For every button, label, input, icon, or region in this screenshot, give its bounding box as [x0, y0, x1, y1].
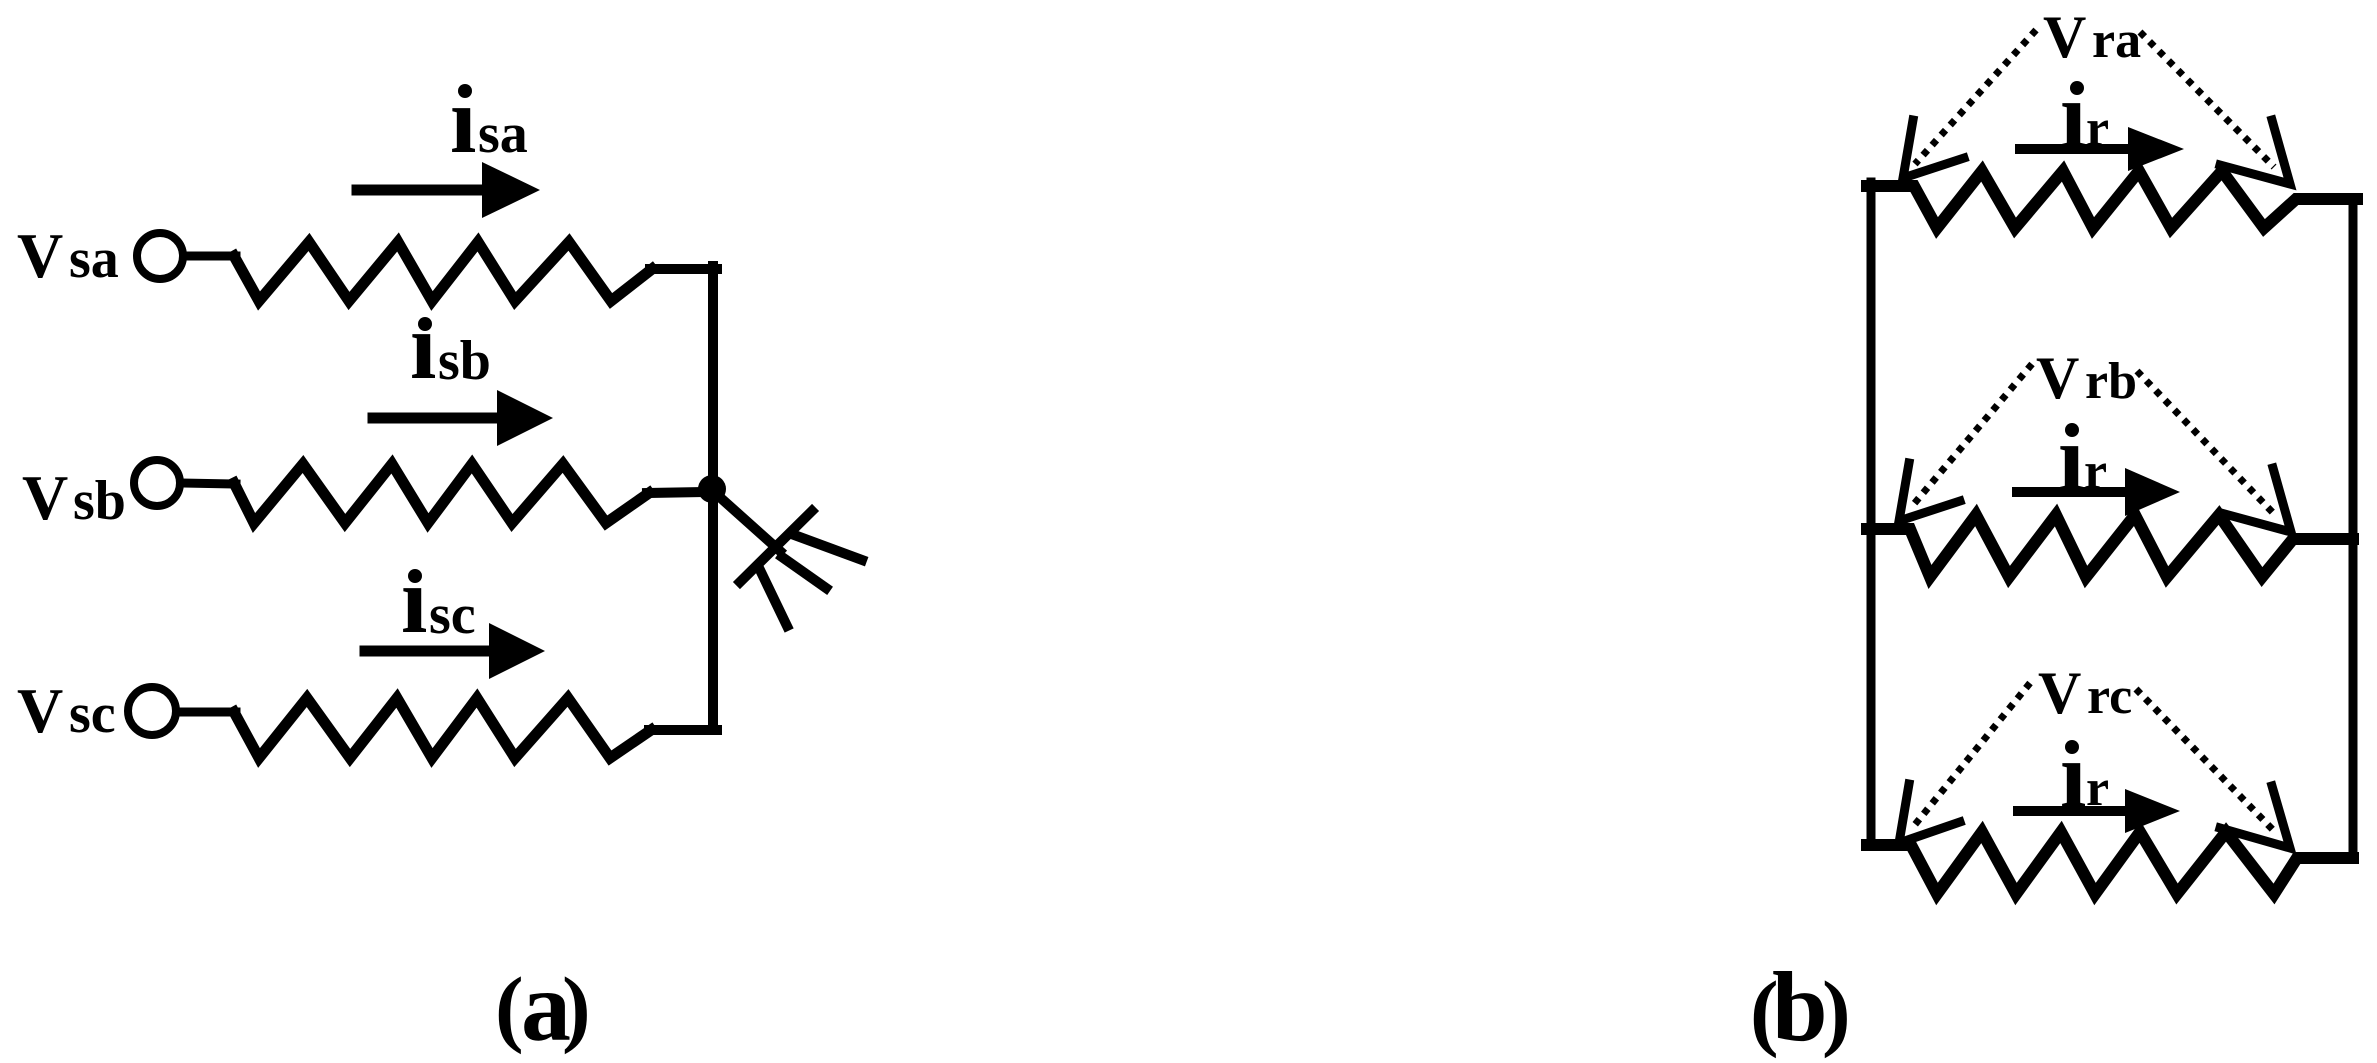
svg-text:sc: sc	[429, 584, 476, 646]
caption (b)	[1750, 951, 1851, 1062]
right rail of rotor loop	[2349, 199, 2358, 858]
resistor Rrc (bottom)	[1867, 832, 2353, 894]
label Vsb	[22, 462, 126, 533]
resistor Rsb	[234, 464, 649, 523]
current arrow isa	[357, 185, 482, 196]
svg-text:V: V	[2038, 660, 2081, 726]
current label isb	[410, 293, 491, 399]
left rail of rotor loop	[1867, 182, 1876, 845]
resistor Rsc	[234, 698, 651, 758]
resistor Rra (top)	[1867, 171, 2357, 228]
label Vrc	[2038, 660, 2132, 726]
svg-text:V: V	[2043, 4, 2086, 70]
fault symbol ray middle	[782, 557, 826, 588]
current arrow ir (bottom)	[2018, 806, 2125, 816]
svg-text:sa: sa	[69, 228, 119, 290]
fault symbol stem	[714, 492, 780, 551]
current label ir (top)	[2060, 62, 2109, 168]
svg-text:ı: ı	[450, 67, 476, 173]
voltage dotted arrow Vrc right	[2136, 689, 2276, 833]
caption (a)	[495, 951, 591, 1062]
wire Vsb terminal to resistor	[181, 483, 236, 484]
node N (neutral junction)	[698, 475, 726, 503]
svg-text:V: V	[17, 220, 63, 291]
label Vsc	[17, 675, 116, 746]
svg-text:ı: ı	[410, 293, 436, 399]
svg-text:b: b	[1772, 951, 1828, 1062]
voltage dotted arrow Vra left	[1915, 30, 2036, 164]
source terminal Vsc	[128, 687, 176, 735]
resistor Rrb (middle)	[1867, 515, 2353, 577]
svg-text:rc: rc	[2087, 668, 2132, 725]
svg-text:ra: ra	[2092, 12, 2141, 69]
svg-text:V: V	[17, 675, 63, 746]
voltage dotted arrow Vra right	[2140, 32, 2274, 167]
fault symbol ray lower	[761, 572, 787, 626]
current arrow isb	[373, 413, 497, 424]
wire Rsb to node	[647, 492, 706, 493]
current arrow ir (middle)	[2017, 487, 2125, 497]
svg-text:): )	[1822, 963, 1851, 1059]
wire Rsa to bus	[650, 264, 717, 274]
label Vrb	[2036, 345, 2137, 411]
svg-text:V: V	[22, 462, 68, 533]
current arrow ir (top)	[2020, 144, 2128, 154]
current label ir (middle)	[2058, 405, 2107, 511]
bus wire (right vertical)	[708, 266, 718, 730]
current arrow isc	[365, 646, 489, 657]
wire Vsc terminal to resistor	[177, 708, 236, 717]
source terminal Vsa	[137, 233, 183, 279]
label Vra	[2043, 4, 2141, 70]
svg-text:): )	[562, 959, 591, 1055]
voltage dotted arrow Vrb right	[2137, 371, 2277, 517]
current label isc	[401, 547, 476, 653]
svg-text:rb: rb	[2085, 353, 2137, 410]
fault symbol crossbar	[740, 511, 812, 582]
current label isa	[450, 67, 528, 173]
svg-text:(: (	[495, 959, 524, 1055]
svg-text:sa: sa	[478, 103, 528, 165]
svg-text:sb: sb	[73, 470, 126, 532]
wire Vsa terminal to resistor	[184, 252, 236, 261]
svg-text:V: V	[2036, 345, 2079, 411]
current label ir (bottom)	[2060, 722, 2109, 828]
svg-text:sb: sb	[438, 330, 491, 392]
voltage dotted arrow Vrc left	[1913, 683, 2030, 827]
source terminal Vsb	[134, 460, 180, 506]
voltage dotted arrow Vrb left	[1913, 364, 2032, 505]
svg-text:sc: sc	[69, 683, 116, 745]
label Vsa	[17, 220, 119, 291]
wire Rsc to bus	[649, 725, 717, 735]
resistor Rsa	[234, 242, 652, 301]
fault symbol ray upper	[797, 536, 862, 560]
svg-text:ı: ı	[401, 547, 427, 653]
